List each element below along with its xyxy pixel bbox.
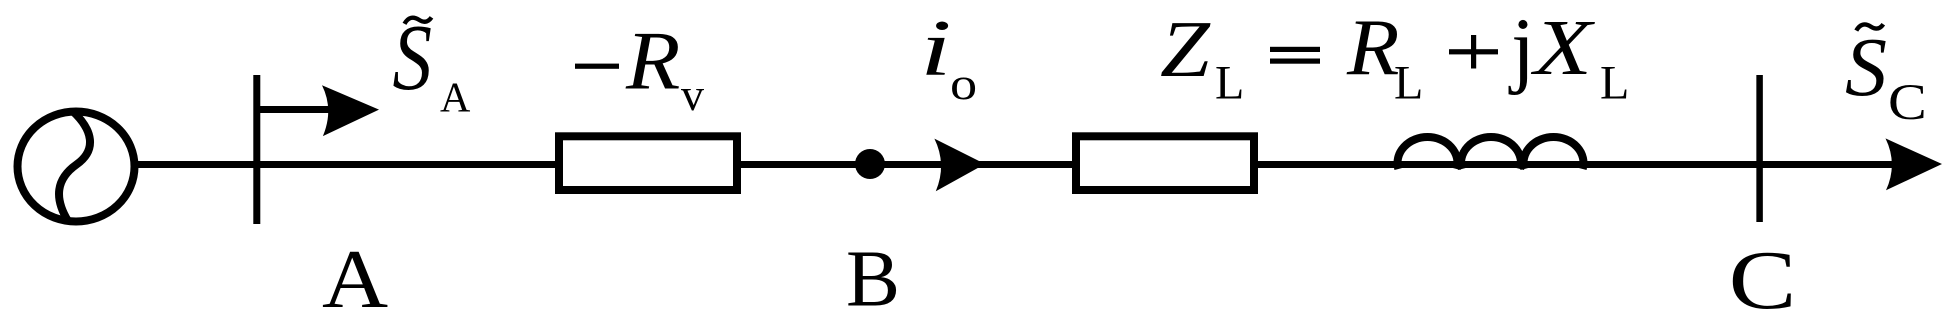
wire [138,161,1895,168]
svg-text:R: R [1346,3,1399,92]
node B [855,149,885,179]
svg-text:R: R [625,14,680,107]
svg-text:L: L [1600,57,1629,110]
label Z_L = R_L + jX_L [1160,0,1629,110]
svg-text:i: i [920,4,952,93]
label C [1729,234,1797,327]
svg-text:L: L [1215,57,1244,110]
label -R_v [575,14,704,120]
svg-text:B: B [846,234,900,324]
resistor Rv [559,136,737,190]
label A [322,233,388,326]
AC source sine curve [59,111,90,221]
svg-text:C: C [1729,234,1797,327]
svg-text:C: C [1888,73,1927,130]
resistor RL [1076,136,1254,190]
power-flow arrow S_A [257,85,379,136]
bus A [253,75,260,224]
label S~_A [393,6,472,122]
svg-text:A: A [322,233,388,326]
svg-text:S: S [1845,21,1887,114]
current arrow i_o [934,139,985,192]
svg-text:v: v [681,69,704,120]
svg-text:o: o [950,58,977,109]
svg-text:X: X [1531,3,1596,91]
svg-text:Z: Z [1160,5,1211,94]
label S~_C [1845,21,1927,130]
output arrow head [1886,138,1943,190]
inductor XL [1398,137,1584,169]
AC source [18,112,135,222]
svg-text:j: j [1508,0,1535,96]
svg-text:L: L [1394,57,1423,110]
bus C [1756,75,1763,222]
label i_o [920,4,977,109]
svg-text:A: A [440,76,471,122]
